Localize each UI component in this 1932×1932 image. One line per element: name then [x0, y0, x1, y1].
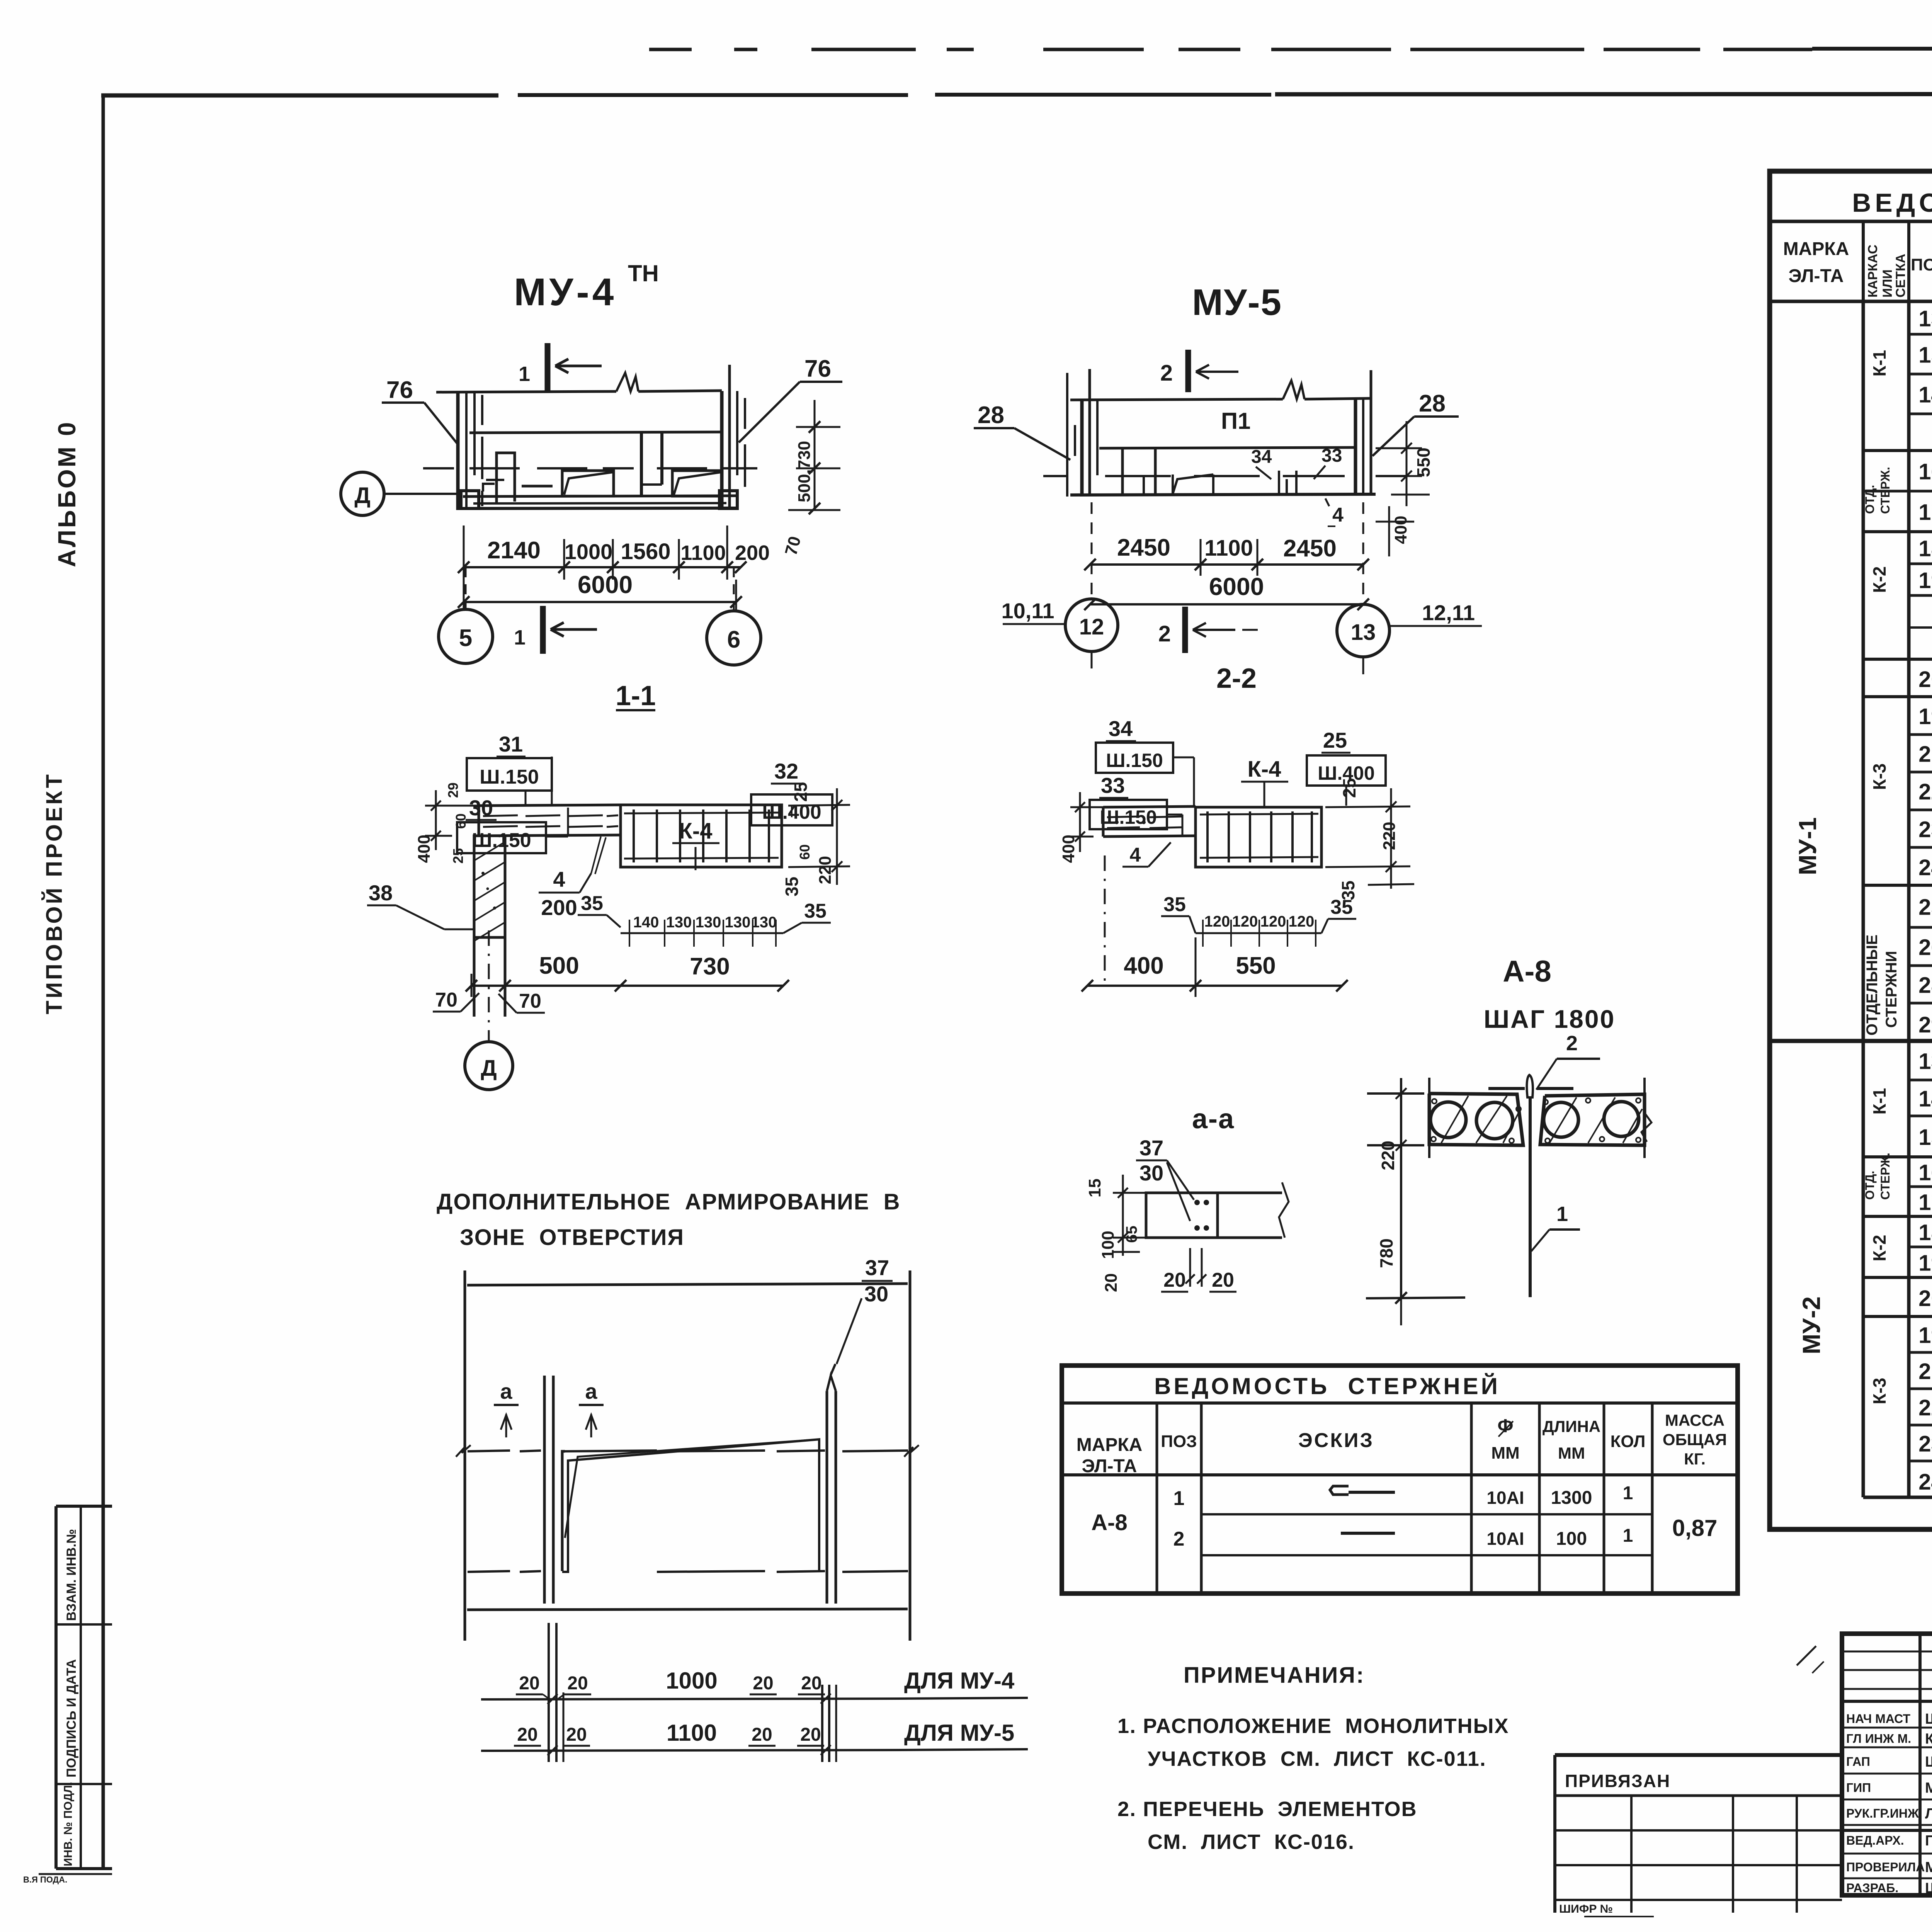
svg-text:МУ-1: МУ-1: [1794, 817, 1821, 875]
svg-text:а-а: а-а: [1192, 1104, 1235, 1134]
A-8 slab left hatched: [1429, 1094, 1523, 1145]
svg-text:1100: 1100: [680, 541, 726, 565]
MU-5 left edge bars: [1080, 400, 1084, 495]
svg-text:15: 15: [1918, 343, 1932, 368]
svg-text:1-1: 1-1: [616, 680, 656, 711]
small table title row line: [1062, 1401, 1738, 1405]
svg-text:120: 120: [1260, 913, 1286, 930]
svg-text:2450: 2450: [1117, 534, 1170, 561]
svg-text:4: 4: [553, 867, 565, 891]
MU-5 dim row 2450 1100 2450: [1090, 563, 1363, 566]
svg-text:38: 38: [369, 881, 393, 905]
small table outer frame: [1062, 1366, 1738, 1594]
A-8 slab left circles: [1430, 1102, 1466, 1138]
dop right bar pair: [826, 1391, 828, 1604]
svg-text:25: 25: [450, 848, 466, 864]
svg-text:1100: 1100: [667, 1720, 717, 1746]
svg-text:60: 60: [797, 844, 813, 860]
svg-text:1. РАСПОЛОЖЕНИЕ МОНОЛИТНЫХ: 1. РАСПОЛОЖЕНИЕ МОНОЛИТНЫХ: [1117, 1714, 1509, 1738]
A-8 concrete dots: [1432, 1099, 1437, 1104]
svg-text:24: 24: [1918, 1469, 1932, 1495]
svg-text:220: 220: [816, 856, 835, 884]
svg-text:400: 400: [1391, 516, 1410, 544]
section 1-1 thick beam right part: [621, 805, 782, 867]
MU-5 bottom slab line: [1070, 494, 1376, 495]
svg-text:СТЕРЖ.: СТЕРЖ.: [1878, 467, 1892, 514]
svg-text:4: 4: [1130, 844, 1141, 866]
svg-text:МУ-2: МУ-2: [1798, 1296, 1825, 1354]
MU-4TN bottom slab lines: [463, 496, 736, 497]
svg-text:а: а: [500, 1379, 512, 1403]
section 1-1 beam stirrups: [633, 810, 635, 862]
svg-text:1560: 1560: [621, 539, 670, 564]
svg-text:К-1: К-1: [1869, 350, 1889, 377]
svg-text:14: 14: [1918, 1087, 1932, 1112]
svg-text:МАССА: МАССА: [1665, 1411, 1725, 1429]
MU-4TN right edge bars: [720, 391, 724, 509]
A-8 dim 220: [1367, 1092, 1424, 1095]
svg-text:2140: 2140: [487, 537, 541, 564]
MU-4TN grid bubble 6: [707, 611, 761, 665]
svg-text:19: 19: [1918, 1251, 1932, 1276]
svg-text:СТЕРЖНИ: СТЕРЖНИ: [1883, 951, 1900, 1028]
section 2-2 beam stirrups: [1206, 811, 1209, 862]
svg-text:К-4: К-4: [679, 818, 713, 844]
svg-text:ТИПОВОЙ ПРОЕКТ: ТИПОВОЙ ПРОЕКТ: [42, 772, 67, 1014]
svg-text:400: 400: [1124, 952, 1163, 979]
section 2-2 slab reinf dashes: [1107, 816, 1140, 817]
svg-text:20: 20: [753, 1673, 773, 1694]
svg-text:12: 12: [1079, 614, 1104, 639]
MU-5 right dims 550 400: [1376, 447, 1422, 449]
svg-text:100: 100: [1556, 1529, 1587, 1549]
svg-text:100: 100: [1099, 1231, 1117, 1259]
A-8 slab right circles: [1544, 1102, 1578, 1137]
svg-text:4: 4: [1332, 504, 1344, 526]
svg-text:ПЛИФЕРОВ: ПЛИФЕРОВ: [1925, 1833, 1932, 1849]
MU-5 section mark 2 top: [1185, 350, 1191, 392]
svg-text:130: 130: [666, 914, 692, 931]
small table row lines: [1201, 1513, 1652, 1515]
svg-text:26: 26: [1918, 935, 1932, 960]
svg-text:МУ-5: МУ-5: [1192, 282, 1282, 323]
svg-text:РУК.ГР.ИНЖ: РУК.ГР.ИНЖ: [1846, 1806, 1919, 1820]
svg-text:а: а: [585, 1379, 597, 1403]
dop dashed axis bottom: [468, 1571, 510, 1572]
svg-text:18: 18: [1918, 1220, 1932, 1245]
svg-text:МИЛКОВСКИЙ: МИЛКОВСКИЙ: [1925, 1779, 1932, 1796]
svg-text:70: 70: [781, 534, 804, 558]
MU-4TN top chord line with break: [436, 391, 616, 392]
section 1-1 slab reinf dashes: [483, 815, 518, 816]
MU-4TN hook small mid: [522, 485, 553, 488]
svg-text:6000: 6000: [578, 571, 633, 599]
svg-text:1: 1: [519, 362, 530, 386]
big table main column lines: [1862, 301, 1865, 1497]
page frame top inner line: [101, 94, 498, 98]
A-8 dim 780: [1400, 1145, 1402, 1298]
svg-text:76: 76: [386, 377, 413, 403]
svg-text:6000: 6000: [1209, 573, 1264, 600]
svg-text:33: 33: [1101, 773, 1125, 798]
svg-text:Д: Д: [354, 483, 370, 508]
svg-text:5: 5: [459, 625, 472, 651]
MU-4TN dim row 1: 2140 1000 1560 1100 200: [464, 566, 741, 568]
svg-text:37: 37: [1139, 1136, 1163, 1160]
svg-text:2: 2: [1173, 1528, 1185, 1550]
big table block line K-1 bottom (MU-1): [1863, 449, 1932, 452]
svg-text:70: 70: [519, 990, 541, 1012]
svg-text:К-4: К-4: [1248, 757, 1281, 782]
MU-4TN mid column pair: [640, 433, 643, 496]
svg-text:730: 730: [690, 953, 730, 980]
svg-text:31: 31: [499, 732, 523, 756]
A-8 slab right hatched: [1540, 1094, 1645, 1145]
svg-text:76: 76: [804, 355, 831, 382]
svg-text:22: 22: [1918, 779, 1932, 804]
A-8 slab edge ticks: [1428, 1078, 1430, 1158]
svg-text:130: 130: [751, 914, 777, 931]
svg-text:70: 70: [435, 989, 457, 1011]
svg-text:Д: Д: [481, 1056, 497, 1081]
MU-4TN dim row 2: 6000: [464, 601, 736, 603]
MU-4TN left edge bars: [456, 393, 460, 510]
svg-text:К-1: К-1: [1869, 1088, 1889, 1115]
svg-text:ПРИВЯЗАН: ПРИВЯЗАН: [1565, 1771, 1670, 1791]
svg-text:25: 25: [1323, 728, 1347, 752]
MU-4TN right anchor block: [719, 491, 737, 509]
svg-text:17: 17: [1918, 1190, 1932, 1215]
svg-text:ГИП: ГИП: [1846, 1781, 1871, 1795]
big table divider MU-1 / MU-2: [1770, 1039, 1932, 1043]
MU-4TN grid bubble 5: [465, 610, 466, 611]
small table header bottom line: [1062, 1473, 1738, 1476]
svg-text:130: 130: [725, 914, 751, 931]
dop dim row for MU-5: [481, 1750, 901, 1751]
svg-text:ШТ.МНИК: ШТ.МНИК: [1925, 1880, 1932, 1896]
svg-text:ЭЛ-ТА: ЭЛ-ТА: [1082, 1456, 1137, 1476]
svg-text:Ш.150: Ш.150: [472, 829, 531, 852]
svg-text:13: 13: [1351, 620, 1376, 645]
svg-text:30: 30: [1139, 1161, 1163, 1185]
svg-text:15: 15: [1918, 1125, 1932, 1150]
svg-text:220: 220: [1380, 822, 1399, 850]
svg-text:ОТД.: ОТД.: [1863, 1171, 1877, 1200]
svg-text:13: 13: [1918, 1049, 1932, 1074]
a-a bar rectangle: [1146, 1193, 1218, 1238]
svg-text:В.Я ПОДА.: В.Я ПОДА.: [23, 1875, 67, 1884]
svg-text:ДЛЯ МУ-5: ДЛЯ МУ-5: [904, 1720, 1014, 1746]
svg-text:19: 19: [1918, 1323, 1932, 1348]
svg-text:ПОЗ.: ПОЗ.: [1911, 255, 1932, 274]
svg-text:10АI: 10АI: [1486, 1529, 1524, 1549]
svg-text:120: 120: [1289, 913, 1315, 930]
page frame left border: [102, 97, 105, 1869]
svg-text:550: 550: [1413, 447, 1434, 477]
svg-text:780: 780: [1376, 1238, 1396, 1268]
MU-5 mid hook rectangle: [1173, 474, 1213, 494]
A-8 joint bar item 2: [1488, 1087, 1525, 1090]
svg-text:2: 2: [1158, 621, 1171, 646]
svg-text:25: 25: [1918, 895, 1932, 920]
svg-text:АЛЬБОМ 0: АЛЬБОМ 0: [53, 420, 81, 567]
svg-text:20: 20: [566, 1725, 587, 1745]
MU-5 top chord line with break: [1070, 399, 1283, 400]
svg-text:12,11: 12,11: [1422, 600, 1475, 625]
MU-4TN second chord line: [469, 432, 721, 433]
svg-text:65: 65: [1123, 1226, 1140, 1243]
svg-text:ВЗАМ. ИНВ.№: ВЗАМ. ИНВ.№: [64, 1529, 79, 1621]
dop lower bar stubs: [548, 1623, 550, 1762]
svg-text:37: 37: [865, 1255, 889, 1280]
svg-text:ОБЩАЯ: ОБЩАЯ: [1663, 1430, 1727, 1449]
svg-text:1000: 1000: [666, 1668, 717, 1694]
dop break marks left right: [456, 1445, 471, 1457]
svg-text:ВЕДОМОСТЬ СТЕРЖНЕЙ: ВЕДОМОСТЬ СТЕРЖНЕЙ: [1154, 1373, 1500, 1399]
big table footer line: [1863, 1496, 1932, 1499]
svg-text:200: 200: [735, 541, 770, 565]
svg-text:29: 29: [445, 782, 461, 798]
title block vertical lines: [1918, 1634, 1922, 1895]
svg-text:20: 20: [1212, 1269, 1234, 1291]
svg-text:20: 20: [801, 1673, 821, 1694]
page frame top outer line (dashed left, solid right): [649, 48, 692, 51]
svg-text:33: 33: [1321, 446, 1342, 466]
svg-text:29: 29: [1918, 1012, 1932, 1037]
svg-text:ММ: ММ: [1558, 1444, 1585, 1462]
MU-5 grid bubble 12: [1065, 599, 1118, 651]
svg-text:20: 20: [1918, 1286, 1932, 1311]
svg-text:К-2: К-2: [1869, 1235, 1889, 1262]
title block outer frame: [1842, 1634, 1932, 1895]
svg-text:КАРКАС: КАРКАС: [1866, 245, 1880, 298]
svg-text:120: 120: [1204, 913, 1230, 930]
svg-text:34: 34: [1251, 447, 1272, 467]
svg-text:2: 2: [1160, 361, 1173, 386]
svg-text:550: 550: [1236, 952, 1276, 979]
svg-text:28: 28: [1918, 973, 1932, 998]
svg-text:20: 20: [519, 1673, 539, 1694]
MU-5 axis dashed line: [1043, 475, 1066, 477]
svg-text:Ш.150: Ш.150: [480, 766, 539, 788]
svg-text:35: 35: [782, 877, 802, 896]
MU-4TN section mark 1 top: [545, 343, 551, 391]
section 1-1 axis line to D bubble: [488, 930, 490, 1041]
svg-text:20: 20: [1102, 1273, 1121, 1292]
left bottom side table: [54, 1506, 58, 1869]
svg-text:МАРКА: МАРКА: [1077, 1435, 1143, 1455]
svg-text:32: 32: [774, 759, 798, 783]
svg-text:10АI: 10АI: [1486, 1488, 1524, 1508]
big table header row: [1770, 300, 1932, 303]
section 1-1 wall hatched: [474, 836, 505, 937]
svg-text:ШЕСТОПАЛЛОВ: ШЕСТОПАЛЛОВ: [1925, 1711, 1932, 1727]
svg-text:ПРИМЕЧАНИЯ:: ПРИМЕЧАНИЯ:: [1184, 1663, 1365, 1688]
svg-text:10,11: 10,11: [1001, 599, 1054, 623]
svg-text:16: 16: [1918, 459, 1932, 485]
svg-text:25: 25: [791, 782, 811, 802]
section 1-1 slab thin part: [479, 805, 621, 806]
section 2-2 slab thin part: [1103, 806, 1196, 807]
svg-text:20: 20: [517, 1725, 537, 1745]
svg-text:1: 1: [1173, 1487, 1185, 1510]
section 2-2 bottom dims 400 550: [1087, 985, 1342, 987]
MU-5 dim row 6000: [1090, 603, 1363, 605]
svg-text:А-8: А-8: [1503, 954, 1551, 988]
section 1-1 wall below lines: [473, 937, 476, 1017]
svg-text:КГ.: КГ.: [1684, 1450, 1706, 1468]
MU-4TN section mark 1 bottom: [540, 606, 546, 654]
svg-text:ЗОНЕ ОТВЕРСТИЯ: ЗОНЕ ОТВЕРСТИЯ: [460, 1225, 684, 1250]
svg-text:35: 35: [1163, 893, 1186, 916]
svg-text:ЛОГИНОВА: ЛОГИНОВА: [1925, 1806, 1932, 1822]
svg-text:21: 21: [1918, 1359, 1932, 1384]
svg-text:13: 13: [1918, 306, 1932, 332]
svg-text:ДЛИНА: ДЛИНА: [1543, 1417, 1600, 1435]
svg-text:ИЛИ: ИЛИ: [1880, 269, 1895, 298]
left bottom small marks: [39, 1873, 112, 1875]
svg-text:ММ: ММ: [1491, 1444, 1519, 1463]
MU-5 section mark 2 bottom: [1182, 607, 1188, 653]
privyazan inner grid: [1630, 1796, 1633, 1913]
MU-4TN hook profile left: [497, 453, 515, 502]
svg-text:6: 6: [727, 626, 740, 653]
privyazan block frame: [1555, 1753, 1842, 1757]
section 1-1 D bubble: [465, 1042, 513, 1090]
svg-text:К-3: К-3: [1869, 1378, 1889, 1405]
svg-text:Ш.150: Ш.150: [1106, 750, 1163, 771]
svg-text:1: 1: [1623, 1483, 1633, 1503]
svg-text:17: 17: [1918, 500, 1932, 525]
svg-text:А-8: А-8: [1091, 1510, 1127, 1535]
svg-text:35: 35: [1338, 881, 1358, 900]
svg-text:35: 35: [804, 900, 827, 922]
dop opening outline: [562, 1451, 565, 1571]
svg-text:МАРКА: МАРКА: [1783, 239, 1849, 259]
svg-text:1100: 1100: [1204, 536, 1253, 561]
section 2-2 thick beam right part: [1196, 807, 1321, 867]
svg-text:20: 20: [567, 1673, 588, 1694]
svg-text:15: 15: [1085, 1179, 1104, 1197]
A-8 vertical bar item 1: [1529, 1097, 1532, 1297]
svg-text:ТН: ТН: [628, 260, 659, 286]
svg-text:20: 20: [1163, 1269, 1186, 1291]
svg-text:18: 18: [1918, 536, 1932, 561]
svg-text:УЧАСТКОВ СМ. ЛИСТ КС-011.: УЧАСТКОВ СМ. ЛИСТ КС-011.: [1148, 1747, 1486, 1770]
svg-text:1: 1: [514, 626, 526, 649]
svg-text:400: 400: [415, 835, 434, 863]
svg-text:П1: П1: [1221, 408, 1251, 434]
MU-5 second chord line: [1099, 447, 1354, 448]
svg-text:200: 200: [541, 895, 577, 920]
section 1-1 right dims 220 60 35: [788, 805, 850, 806]
dop drawing top line: [467, 1284, 908, 1285]
svg-text:2450: 2450: [1283, 535, 1337, 562]
big table rows 16 17 (MU-1): [1863, 490, 1932, 493]
section 2-2 dim 400 left: [1070, 806, 1105, 808]
svg-text:СЕТКА: СЕТКА: [1893, 254, 1908, 298]
svg-text:1000: 1000: [565, 539, 613, 564]
section 2-2 spacing dims 120x4: [1196, 932, 1321, 934]
MU-4TN left anchor block: [461, 491, 479, 509]
svg-text:500: 500: [539, 952, 579, 979]
small table column lines: [1156, 1403, 1158, 1594]
svg-text:КРИЧЕВСКИЙ: КРИЧЕВСКИЙ: [1925, 1730, 1932, 1747]
section 1-1 left dims 400 29 60 25: [425, 805, 479, 807]
svg-text:130: 130: [696, 914, 721, 931]
svg-text:19: 19: [1918, 568, 1932, 593]
svg-text:21: 21: [1918, 742, 1932, 767]
svg-text:ВЕДОМОСТЬ СТЕРЖНЕЙ: ВЕДОМОСТЬ СТЕРЖНЕЙ: [1852, 188, 1932, 218]
dop dashed axis top: [468, 1451, 510, 1451]
MU-5 right edge bars: [1354, 399, 1357, 495]
dop left bar pair: [543, 1376, 546, 1604]
svg-text:ДОПОЛНИТЕЛЬНОЕ АРМИРОВАНИЕ В: ДОПОЛНИТЕЛЬНОЕ АРМИРОВАНИЕ В: [437, 1189, 901, 1214]
svg-text:16: 16: [1918, 1160, 1932, 1185]
MU-5 grid bubble 13: [1337, 604, 1389, 657]
svg-text:ГАП: ГАП: [1846, 1755, 1870, 1769]
svg-text:25: 25: [1339, 778, 1359, 798]
svg-text:1: 1: [1623, 1526, 1633, 1546]
svg-text:ДЛЯ МУ-4: ДЛЯ МУ-4: [904, 1668, 1015, 1694]
svg-text:ПОЗ: ПОЗ: [1161, 1432, 1197, 1451]
svg-text:ОТД.: ОТД.: [1863, 485, 1877, 514]
MU-4TN right dims 500 730: [814, 400, 816, 510]
svg-text:2. ПЕРЕЧЕНЬ ЭЛЕМЕНТОВ: 2. ПЕРЕЧЕНЬ ЭЛЕМЕНТОВ: [1117, 1798, 1417, 1821]
svg-text:120: 120: [1232, 913, 1258, 930]
svg-text:ВЕД.АРХ.: ВЕД.АРХ.: [1846, 1833, 1904, 1847]
svg-text:14: 14: [1918, 383, 1932, 408]
dop drawing bottom line: [467, 1609, 908, 1610]
svg-text:30: 30: [864, 1282, 888, 1306]
svg-text:1300: 1300: [1551, 1488, 1592, 1508]
dop dim row for MU-4: [481, 1699, 901, 1699]
svg-text:34: 34: [1109, 716, 1133, 741]
title block leader dash: [1797, 1646, 1816, 1665]
svg-text:220: 220: [1378, 1141, 1398, 1170]
svg-text:28: 28: [1419, 390, 1446, 417]
dop drawing outer verticals: [464, 1270, 466, 1641]
svg-text:СМ. ЛИСТ КС-016.: СМ. ЛИСТ КС-016.: [1148, 1830, 1355, 1854]
svg-text:20: 20: [752, 1725, 772, 1745]
title block small rows left part: [1842, 1651, 1932, 1653]
svg-text:23: 23: [1918, 1432, 1932, 1457]
svg-text:СТЕРЖ.: СТЕРЖ.: [1878, 1153, 1892, 1200]
svg-text:22: 22: [1918, 1395, 1932, 1420]
svg-text:140: 140: [633, 914, 659, 931]
svg-text:60: 60: [453, 813, 469, 829]
svg-text:ПОДПИСЬ И ДАТА: ПОДПИСЬ И ДАТА: [64, 1659, 79, 1777]
svg-text:ПРОВЕРИЛА: ПРОВЕРИЛА: [1846, 1860, 1925, 1874]
svg-text:ИНВ. № ПОДЛ.: ИНВ. № ПОДЛ.: [62, 1782, 75, 1866]
MU-4TN mid rectangle 2 with hook: [672, 471, 722, 496]
MU-4TN mid rectangle 1 with hook: [562, 471, 614, 496]
svg-text:ШИФР №: ШИФР №: [1559, 1903, 1613, 1915]
svg-text:20: 20: [800, 1725, 821, 1745]
svg-text:ШУМОВ: ШУМОВ: [1925, 1754, 1932, 1770]
svg-text:28: 28: [978, 402, 1004, 429]
big table outer frame: [1770, 171, 1932, 1529]
svg-text:19: 19: [1918, 704, 1932, 729]
svg-text:400: 400: [1059, 835, 1078, 863]
svg-text:К-2: К-2: [1869, 566, 1889, 593]
svg-text:2-2: 2-2: [1216, 663, 1257, 694]
svg-text:ШАГ 1800: ШАГ 1800: [1484, 1005, 1616, 1033]
svg-text:24: 24: [1918, 855, 1932, 880]
MU-4TN axis dashed line: [423, 467, 454, 469]
svg-text:1: 1: [1556, 1202, 1568, 1226]
svg-text:НАЧ МАСТ: НАЧ МАСТ: [1846, 1712, 1910, 1726]
